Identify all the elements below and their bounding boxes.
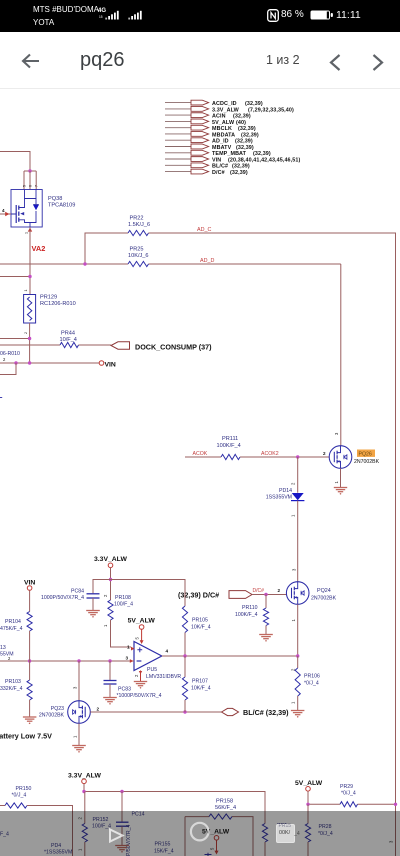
pin labels PD14	[291, 482, 296, 517]
svg-text:2: 2	[97, 707, 100, 712]
svg-text:1: 1	[291, 514, 296, 517]
wire PQ26 source to ground	[340, 468, 342, 487]
svg-text:AD_ID: AD_ID	[212, 139, 229, 145]
pin label 3 right edge	[389, 840, 394, 843]
wire VIN to PR104	[29, 590, 31, 611]
capacitor PC14	[116, 792, 145, 856]
svg-text:ACOK2: ACOK2	[261, 451, 279, 457]
wire PC84 branch	[93, 580, 111, 594]
pin 2 PQ23 gate wire to BL/C#	[90, 707, 221, 713]
node MBDATA off-page flag	[165, 132, 259, 139]
svg-text:4: 4	[166, 649, 169, 654]
resistor PR156 column	[262, 823, 287, 856]
ground PR110	[259, 635, 273, 642]
svg-text:AD_D: AD_D	[200, 258, 214, 264]
svg-text:2: 2	[278, 588, 281, 593]
svg-text:5V_ALW: 5V_ALW	[295, 780, 323, 787]
svg-text:MBCLK: MBCLK	[212, 126, 232, 132]
svg-text:1: 1	[291, 619, 296, 622]
svg-text:PD14: PD14	[279, 488, 292, 494]
junction AD_C vertical / PR29	[394, 803, 397, 806]
svg-text:PR111: PR111	[222, 436, 238, 442]
wire PC84 to ground	[92, 598, 94, 610]
junction VIN / PR129	[28, 361, 31, 364]
node BL/C# off-page flag	[165, 163, 250, 170]
resistor PR104	[0, 612, 32, 633]
wire PQ23 source to ground	[73, 723, 80, 745]
svg-text:PQ38: PQ38	[48, 196, 62, 202]
svg-text:3.3V_ALW: 3.3V_ALW	[212, 107, 240, 113]
svg-text:MBATV: MBATV	[212, 145, 232, 151]
svg-text:100/F_4: 100/F_4	[114, 602, 133, 608]
capacitor PC84	[41, 589, 99, 602]
pin labels PR106	[291, 668, 296, 704]
triangle artifact	[107, 827, 127, 845]
svg-text:3: 3	[126, 656, 129, 661]
svg-text:(32,39): (32,39)	[230, 170, 248, 176]
svg-text:55VM: 55VM	[0, 652, 14, 658]
resistor PR110	[235, 595, 269, 635]
wire ACOK to ACOK2	[185, 456, 329, 458]
resistor PR129 RC1206-R010	[24, 295, 76, 324]
svg-text:PR129: PR129	[40, 295, 57, 301]
power 5V_ALW arrow	[128, 618, 156, 642]
pin labels PQ24	[278, 568, 297, 622]
wire PQ23 drain	[73, 661, 80, 701]
svg-text:MBDATA: MBDATA	[212, 132, 235, 138]
svg-text:10K/J_6: 10K/J_6	[128, 253, 149, 259]
svg-text:(32,39): (32,39)	[232, 164, 250, 170]
resistor PR103	[0, 661, 32, 717]
svg-text:1: 1	[291, 701, 296, 704]
svg-text:*1000P/50V/X7R_4: *1000P/50V/X7R_4	[117, 693, 162, 699]
diode PD14 1SS355VM	[266, 488, 305, 501]
ground PQ26	[334, 488, 347, 495]
svg-text:10K/F_4: 10K/F_4	[191, 686, 211, 692]
resistor PR150	[0, 786, 73, 856]
component stub at left edge	[0, 397, 2, 399]
svg-text:1: 1	[334, 481, 339, 484]
svg-text:3: 3	[292, 568, 297, 571]
wire AD_C to right edge vertical	[149, 233, 396, 856]
svg-text:PR106: PR106	[304, 674, 320, 680]
node ACOK2	[261, 451, 279, 457]
junction output / PQ24 source / PR106	[296, 654, 299, 657]
label PQ23 refdes	[39, 706, 65, 719]
node AD_ID off-page flag	[165, 138, 253, 145]
resistor PR28	[305, 804, 332, 856]
wire PR104 to inv line	[29, 631, 31, 661]
wire VIN net	[0, 362, 99, 364]
svg-text:13: 13	[0, 645, 6, 651]
wire 3.3V rail to PR105	[111, 580, 186, 607]
wire branch y338.5	[0, 337, 31, 340]
svg-text:1: 1	[127, 645, 130, 651]
svg-text:BL/C#: BL/C#	[212, 164, 228, 170]
label PU5	[146, 667, 181, 680]
resistor PR108	[108, 595, 133, 620]
svg-text:(32,39): (32,39)	[233, 114, 251, 120]
svg-text:10/F_4: 10/F_4	[60, 337, 77, 343]
svg-text:5V_ALW: 5V_ALW	[128, 618, 156, 625]
resistor (off-page) RC1206-R010 label	[0, 351, 20, 362]
resistor PR106	[295, 656, 320, 710]
svg-text:2N7002BK: 2N7002BK	[354, 459, 380, 465]
svg-text:PR25: PR25	[130, 247, 144, 253]
wire PR129 bottom to VIN line	[29, 323, 31, 363]
wire top-left feed to PQ38 drain pins	[0, 152, 30, 172]
transistor PQ26 2N7002BK	[329, 446, 352, 469]
pin 5 PU5	[135, 637, 144, 644]
op-amp U5 LMV331IDBVR	[134, 642, 162, 671]
svg-text:PR29: PR29	[340, 784, 353, 790]
junction inv input / PR104 PR103	[28, 659, 31, 662]
svg-text:5: 5	[135, 637, 140, 640]
svg-text:PQ26: PQ26	[359, 451, 372, 457]
wire PR108 to op-amp + input	[111, 620, 132, 647]
power 3.3V_ALW port bottom	[68, 773, 101, 784]
svg-text:PR107: PR107	[192, 679, 208, 685]
svg-text:PR158: PR158	[216, 799, 233, 805]
pin 1 PU5	[127, 645, 135, 651]
resistor PR155 label	[154, 842, 174, 855]
svg-text:VIN: VIN	[212, 157, 221, 163]
svg-text:BL/C# (32,39): BL/C# (32,39)	[243, 708, 289, 717]
svg-text:2: 2	[3, 357, 6, 362]
node AD_D	[200, 258, 214, 264]
junction 3.3V rail / PC14	[120, 790, 123, 793]
wire D/C# to PQ24 gate	[252, 588, 286, 595]
capacitor PC83	[104, 661, 162, 699]
wire PR105 to output line	[184, 633, 186, 657]
ground PQ23	[72, 746, 86, 753]
svg-text:DOCK_CONSUMP (37): DOCK_CONSUMP (37)	[135, 343, 212, 352]
svg-text:(32,39): (32,39)	[245, 101, 263, 107]
svg-text:*0/J_4: *0/J_4	[304, 681, 319, 687]
toolbar	[0, 32, 400, 89]
node AD_C	[197, 227, 211, 233]
power 3.3V_ALW port	[94, 556, 127, 568]
svg-text:PR150: PR150	[16, 786, 32, 792]
junction inv input / PC83	[108, 659, 111, 662]
svg-text:(32,39) D/C#: (32,39) D/C#	[178, 591, 219, 600]
wire 5V rail	[308, 791, 396, 804]
svg-text:PR108: PR108	[115, 595, 131, 601]
resistor PR152	[82, 792, 111, 856]
resistor PR158	[209, 799, 236, 820]
dim overlay at bottom	[0, 811, 400, 856]
ground PU5 pin2	[134, 682, 147, 689]
svg-text:2: 2	[291, 668, 296, 671]
junction 5V rail / PR28	[306, 803, 309, 806]
junction BL/C# / PR107	[183, 710, 186, 713]
resistor PR44	[60, 331, 79, 348]
wire PQ38 drain pin stubs 5,6,7	[24, 171, 36, 190]
junction ACOK2 / PD14	[296, 455, 299, 458]
wire branch y276	[0, 275, 32, 278]
pin 3 PU5 wire (inverting input)	[0, 656, 134, 663]
svg-text:3: 3	[73, 686, 78, 689]
svg-text:1: 1	[24, 290, 28, 292]
svg-text:*0/J_4: *0/J_4	[12, 793, 27, 799]
resistor PR107	[182, 656, 210, 712]
label PQ26 highlighted	[354, 450, 380, 466]
svg-text:PR44: PR44	[61, 331, 75, 337]
pin 1 PQ38 bottom	[25, 227, 33, 234]
svg-text:(32,39): (32,39)	[236, 145, 254, 151]
svg-text:PU5: PU5	[147, 667, 157, 673]
svg-text:PR104: PR104	[5, 619, 21, 625]
svg-text:3: 3	[334, 432, 339, 435]
label PQ24 refdes	[311, 588, 337, 602]
svg-text:2: 2	[24, 332, 28, 334]
svg-text:3.3V_ALW: 3.3V_ALW	[68, 773, 101, 780]
resistor PR22	[128, 216, 150, 236]
svg-text:(40): (40)	[236, 120, 246, 126]
svg-text:VIN: VIN	[105, 362, 116, 369]
svg-text:ACOK: ACOK	[193, 451, 208, 457]
wire 3.3V_ALW down	[110, 568, 112, 600]
svg-text:2: 2	[103, 594, 108, 597]
pin labels PR152	[78, 817, 83, 852]
svg-text:ACDC_ID: ACDC_ID	[212, 101, 237, 107]
wire 5V port down	[210, 840, 219, 854]
svg-text:LMV331IDBVR: LMV331IDBVR	[146, 674, 181, 680]
svg-text:ACIN: ACIN	[212, 114, 226, 120]
node MBCLK off-page flag	[165, 125, 256, 132]
svg-text:2N7002BK: 2N7002BK	[311, 596, 337, 602]
svg-text:6: 6	[29, 185, 33, 187]
power 5V_ALW port bottom right	[295, 780, 323, 791]
wire PD14 anode to PQ24 drain	[297, 501, 299, 582]
pin labels PR108	[103, 594, 108, 627]
svg-text:5: 5	[23, 185, 27, 187]
ground PC14	[115, 846, 129, 853]
junction inv input / PQ23 drain	[77, 659, 80, 662]
svg-text:RC1206-R010: RC1206-R010	[40, 301, 76, 307]
wire AD_D horizontal	[0, 263, 341, 265]
svg-text:PR22: PR22	[130, 216, 144, 222]
svg-text:(32,39): (32,39)	[241, 132, 259, 138]
svg-text:2: 2	[291, 482, 296, 485]
flag DOCK_CONSUMP	[111, 342, 212, 352]
svg-text:1: 1	[25, 232, 29, 234]
node D/C# off-page flag	[165, 169, 248, 176]
node MBATV off-page flag	[165, 144, 254, 151]
transistor PQ38 TPCA8109	[11, 190, 42, 228]
svg-text:4: 4	[2, 208, 5, 213]
pin labels 5 6 7 PQ38 top	[23, 185, 39, 187]
wire VA2 net PQ38 source to PR129	[29, 227, 31, 295]
junction output / PR105 PR107	[183, 654, 186, 657]
node 3.3V_ALW off-page flag	[165, 106, 294, 113]
transistor PQ24 2N7002BK	[286, 582, 309, 605]
svg-text:3.3V_ALW: 3.3V_ALW	[94, 556, 127, 563]
ground PR106	[291, 711, 305, 718]
svg-text:1: 1	[73, 735, 78, 738]
svg-text:TPCA8109: TPCA8109	[48, 203, 75, 209]
port VIN (battery sense)	[24, 580, 35, 591]
svg-text:7: 7	[35, 185, 39, 187]
power 5V_ALW port in box	[202, 829, 230, 841]
port VIN	[99, 361, 116, 369]
svg-text:AD_C: AD_C	[197, 227, 211, 233]
svg-text:(32,39): (32,39)	[235, 139, 253, 145]
junction VIN branch left	[14, 361, 17, 364]
svg-text:2: 2	[323, 451, 326, 456]
node ACOK	[193, 451, 208, 457]
svg-text:PR105: PR105	[192, 618, 208, 624]
svg-text:PQ24: PQ24	[317, 588, 331, 594]
node VA2	[32, 244, 46, 253]
junction PQ38 drain node	[24, 169, 36, 172]
pin labels PQ26	[323, 432, 339, 484]
svg-text:PR110: PR110	[242, 605, 258, 611]
pin 2 PU5 to ground	[134, 671, 142, 682]
svg-text:1: 1	[103, 624, 108, 627]
label (32,39) D/C#	[178, 591, 219, 600]
svg-text:2: 2	[134, 674, 139, 677]
resistor PR111	[217, 436, 241, 460]
svg-text:D/C#: D/C#	[212, 170, 225, 176]
node ACDC_ID off-page flag	[165, 100, 263, 107]
diode PD4 label	[44, 843, 72, 856]
svg-text:TEMP_MBAT: TEMP_MBAT	[212, 151, 247, 157]
junction 3.3V / PC84 branch	[109, 578, 112, 581]
junction AD_D / AD_C branch	[83, 262, 86, 265]
svg-text:10K/F_4: 10K/F_4	[191, 625, 211, 631]
junction 3.3V rail / PR152	[82, 790, 85, 793]
wire DOCK_CONSUMP net	[0, 344, 111, 346]
svg-text:PR103: PR103	[5, 679, 21, 685]
svg-text:VA2: VA2	[32, 244, 46, 253]
node 5V_ALW off-page flag	[165, 119, 246, 126]
resistor PR105	[182, 606, 210, 633]
svg-text:PQ23: PQ23	[51, 706, 64, 712]
wire 3.3V bottom rail	[84, 784, 265, 824]
wire ACOK2 down to PD14	[297, 457, 299, 493]
svg-text:*0/J_4: *0/J_4	[341, 791, 356, 797]
svg-text:2N7002BK: 2N7002BK	[39, 713, 65, 719]
ground PR103	[23, 717, 37, 724]
pin 4 PU5 output wire	[162, 649, 298, 657]
svg-text:(32,39): (32,39)	[238, 126, 256, 132]
resistor PR29	[340, 784, 358, 807]
label PQ38 refdes	[48, 196, 75, 209]
svg-text:Battery Low 7.5V: Battery Low 7.5V	[0, 732, 52, 741]
resistor PR25	[128, 247, 149, 267]
svg-text:(7,29,32,33,35,40): (7,29,32,33,35,40)	[248, 107, 294, 113]
flag D/C#	[229, 591, 252, 599]
flag BL/C# bidirectional	[222, 708, 290, 717]
ground PC83	[103, 698, 117, 705]
wire 5V_ALW sub-box	[185, 817, 253, 856]
status bar	[0, 0, 400, 32]
ground PC84	[86, 611, 100, 618]
svg-text:PC83: PC83	[118, 687, 131, 693]
svg-text:5V_ALW: 5V_ALW	[212, 120, 235, 126]
node TEMP_MBAT off-page flag	[165, 150, 271, 157]
op-amp (cut at bottom edge) plus marks	[205, 853, 212, 856]
svg-text:1.5K/J_6: 1.5K/J_6	[128, 222, 150, 228]
label Battery Low 7.5V	[0, 732, 52, 741]
touch indicator ring	[186, 818, 214, 846]
pin labels PR129	[24, 290, 28, 335]
wire AD_D vertical to PQ26 drain	[340, 264, 342, 446]
pin 4 PQ38 gate	[0, 208, 11, 216]
svg-text:(20,38,40,41,42,43,45,46,51): (20,38,40,41,42,43,45,46,51)	[228, 157, 300, 163]
svg-text:(32,39): (32,39)	[253, 151, 271, 157]
svg-text:475K/F_4: 475K/F_4	[0, 626, 23, 632]
svg-text:100K/F_4: 100K/F_4	[235, 612, 258, 618]
wire branch down-left from VIN line	[0, 363, 16, 375]
diode PD13 label (cut at edge)	[0, 645, 14, 661]
resistor left-cut value label	[0, 832, 9, 838]
node VIN off-page flag	[165, 157, 300, 164]
node ACIN off-page flag	[165, 113, 251, 120]
svg-text:1SS355VM: 1SS355VM	[266, 495, 292, 501]
svg-text:D/C#: D/C#	[253, 588, 265, 594]
svg-text:100K/F_4: 100K/F_4	[217, 443, 241, 449]
wire PQ24 source down	[297, 604, 299, 656]
svg-text:332K/F_4: 332K/F_4	[0, 686, 23, 692]
svg-text:PC84: PC84	[71, 589, 84, 595]
junction D/C# / PR110	[264, 593, 267, 596]
wire AD_C branch up from AD_D line	[85, 233, 128, 264]
highlight box artifact	[276, 824, 295, 844]
svg-text:1000P/50V/X7R_4: 1000P/50V/X7R_4	[41, 595, 84, 601]
transistor PQ23 2N7002BK	[68, 701, 91, 724]
